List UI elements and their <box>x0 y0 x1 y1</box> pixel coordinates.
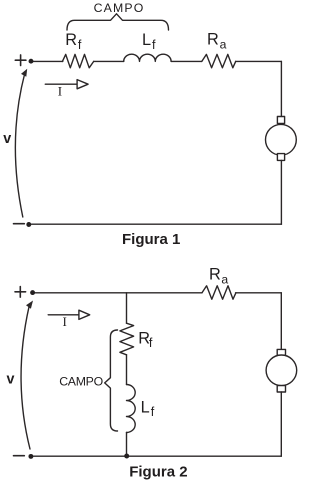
svg-text:R: R <box>207 31 219 49</box>
svg-text:CAMPO: CAMPO <box>94 1 145 15</box>
svg-text:I: I <box>63 314 67 329</box>
svg-text:a: a <box>221 272 228 286</box>
svg-text:CAMPO: CAMPO <box>59 375 103 389</box>
svg-text:f: f <box>151 405 155 419</box>
svg-text:I: I <box>58 84 62 99</box>
svg-text:f: f <box>149 336 153 350</box>
svg-text:L: L <box>141 398 150 416</box>
svg-text:Figura 2: Figura 2 <box>129 463 187 480</box>
svg-text:L: L <box>142 31 151 49</box>
svg-text:R: R <box>65 31 77 49</box>
svg-text:v: v <box>7 372 15 388</box>
svg-text:v: v <box>3 131 11 147</box>
svg-text:R: R <box>209 266 221 284</box>
svg-text:f: f <box>78 38 82 52</box>
svg-text:f: f <box>152 38 156 52</box>
svg-text:Figura 1: Figura 1 <box>122 231 180 248</box>
svg-text:a: a <box>220 37 227 51</box>
